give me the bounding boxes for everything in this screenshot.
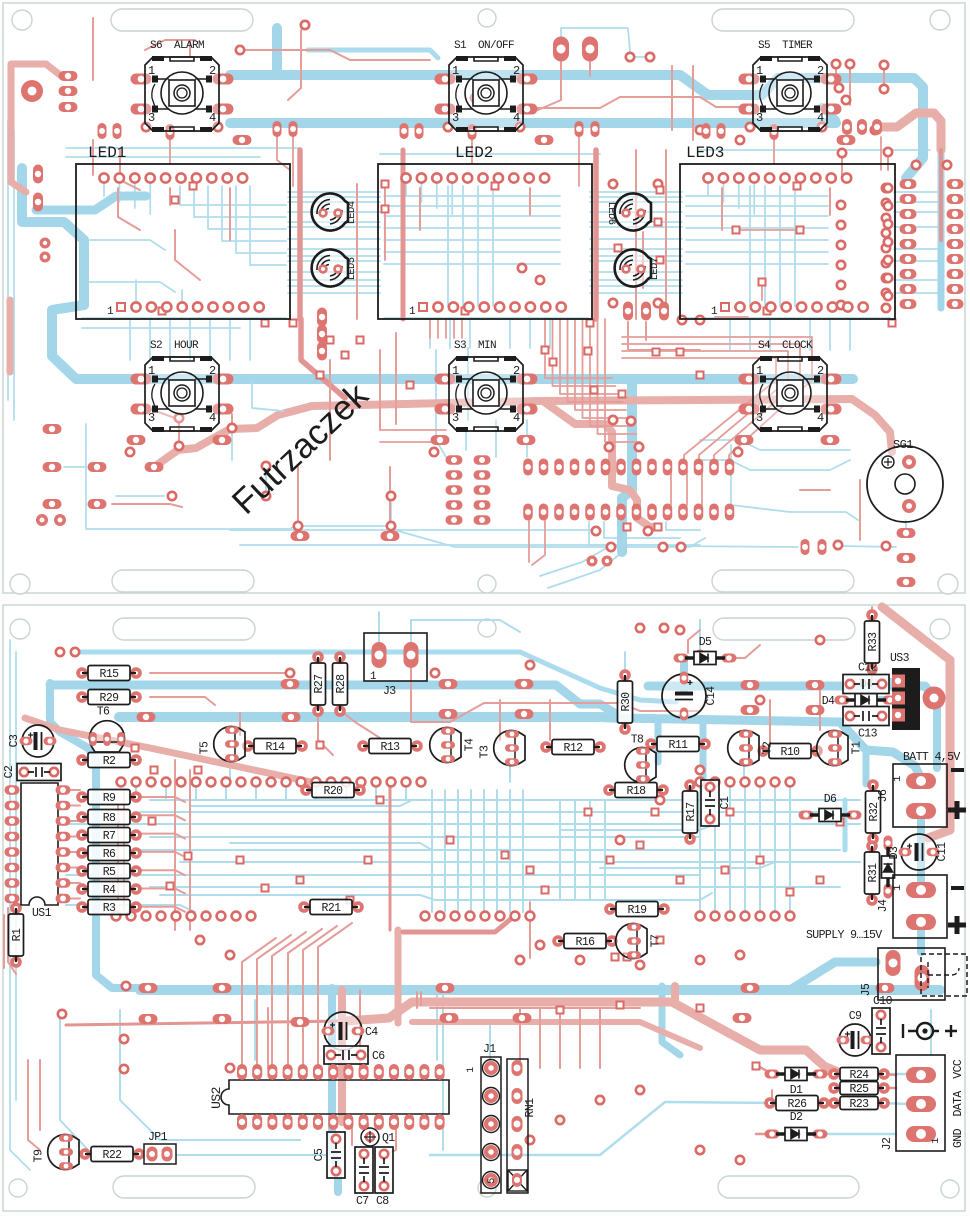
svg-text:R26: R26 <box>788 1098 808 1111</box>
svg-text:C2: C2 <box>3 765 16 778</box>
svg-text:J1: J1 <box>483 1043 496 1056</box>
wire red trace top board <box>10 18 941 565</box>
svg-text:R10: R10 <box>781 746 801 759</box>
svg-text:1: 1 <box>452 364 459 378</box>
wire red trace bottom board <box>4 607 950 1155</box>
svg-text:US3: US3 <box>890 652 910 665</box>
diode D5 <box>674 636 737 665</box>
pads right column <box>832 60 964 309</box>
capacitor C1 <box>701 780 732 826</box>
svg-text:R30: R30 <box>620 692 633 712</box>
resistor R12 <box>540 740 606 756</box>
svg-text:J2: J2 <box>881 1137 894 1150</box>
resistor R26 <box>764 1096 830 1112</box>
svg-text:R25: R25 <box>850 1083 870 1096</box>
capacitor C3 <box>8 725 57 757</box>
svg-text:C13: C13 <box>858 728 878 741</box>
svg-text:1: 1 <box>370 671 377 683</box>
svg-text:C4: C4 <box>365 1026 378 1039</box>
capacitor C5 <box>313 1132 345 1178</box>
bottom board outline <box>3 605 965 1211</box>
switch S5 <box>739 40 842 132</box>
svg-text:SUPPLY 9…15V: SUPPLY 9…15V <box>806 929 882 942</box>
svg-text:2: 2 <box>817 364 824 378</box>
diode D4 <box>822 678 898 708</box>
svg-text:R19: R19 <box>628 904 648 917</box>
svg-text:R15: R15 <box>100 668 120 681</box>
resistor R2 <box>76 753 142 769</box>
display LED3 <box>680 144 895 319</box>
svg-text:4: 4 <box>209 111 216 125</box>
svg-text:R6: R6 <box>103 848 116 861</box>
capacitor C13 <box>843 707 889 741</box>
svg-text:1: 1 <box>107 306 114 318</box>
resistor R4 <box>76 882 142 898</box>
svg-text:1: 1 <box>756 364 763 378</box>
svg-text:R22: R22 <box>103 1149 123 1162</box>
svg-text:1: 1 <box>452 64 459 78</box>
pads below SG1 <box>587 524 916 588</box>
transistor T4 <box>430 727 477 763</box>
pads top board scattered <box>159 21 896 530</box>
connector J4 <box>877 875 947 938</box>
svg-text:3: 3 <box>452 411 459 425</box>
resistor R21 <box>298 900 364 916</box>
led LED6 <box>605 193 651 230</box>
svg-text:1: 1 <box>466 1067 477 1073</box>
svg-text:S6 ALARM: S6 ALARM <box>150 40 204 52</box>
resistor R31 <box>865 840 881 906</box>
svg-text:R21: R21 <box>322 902 342 915</box>
capacitor C8 <box>375 1147 393 1208</box>
svg-text:2: 2 <box>513 364 520 378</box>
capacitor C14 <box>662 672 718 721</box>
svg-text:2: 2 <box>209 64 216 78</box>
svg-text:3: 3 <box>148 411 155 425</box>
svg-text:SG1: SG1 <box>893 438 913 452</box>
resistor R3 <box>76 900 142 916</box>
capacitor C7 <box>355 1147 373 1208</box>
pads bottom board scattered <box>56 624 844 1164</box>
svg-text:R9: R9 <box>103 792 116 805</box>
resistor R22 <box>79 1147 145 1163</box>
pads top board left column <box>21 71 400 541</box>
svg-text:S2 HOUR: S2 HOUR <box>150 340 199 352</box>
svg-text:J6: J6 <box>877 789 890 802</box>
svg-text:1: 1 <box>930 1138 942 1144</box>
svg-text:R14: R14 <box>266 741 286 754</box>
svg-text:R8: R8 <box>103 812 116 825</box>
svg-text:J4: J4 <box>877 899 890 912</box>
transistor T9 <box>33 1134 80 1170</box>
resistor R18 <box>603 783 669 799</box>
resistor R17 <box>683 779 699 845</box>
svg-text:US2: US2 <box>209 1087 224 1109</box>
diode D1 <box>765 1068 828 1098</box>
resistor R20 <box>300 783 366 799</box>
svg-text:C1: C1 <box>719 796 732 809</box>
svg-text:C7: C7 <box>356 1195 369 1208</box>
resistor R29 <box>76 690 142 706</box>
svg-text:LED1: LED1 <box>88 144 126 162</box>
led LED4 <box>312 194 358 231</box>
svg-text:C10: C10 <box>873 995 893 1008</box>
resistor R8 <box>76 810 142 826</box>
svg-text:R5: R5 <box>103 866 116 879</box>
switch S6 <box>131 40 234 132</box>
connector J6 <box>877 764 947 827</box>
battery plus minus J6 <box>948 768 966 819</box>
connector J5 DC jack <box>860 948 967 1000</box>
svg-text:R13: R13 <box>381 741 401 754</box>
power polarity symbol <box>903 1023 957 1039</box>
svg-text:C11: C11 <box>936 842 949 862</box>
svg-text:1: 1 <box>892 885 904 891</box>
diode D6 <box>799 793 862 822</box>
svg-text:R1: R1 <box>11 928 24 941</box>
transistor T2 <box>728 730 775 766</box>
svg-text:R16: R16 <box>576 936 596 949</box>
svg-text:C8: C8 <box>376 1195 389 1208</box>
resistor R16 <box>552 934 618 950</box>
transistor T7 <box>616 923 663 959</box>
svg-text:R7: R7 <box>103 830 116 843</box>
resistor network RN1 <box>507 1059 537 1193</box>
transistor T5 <box>199 726 246 762</box>
svg-text:D6: D6 <box>824 793 837 806</box>
resistor R23 <box>828 1097 890 1112</box>
svg-text:S5 TIMER: S5 TIMER <box>758 40 813 52</box>
svg-text:D4: D4 <box>822 695 835 708</box>
ic US1 <box>5 783 71 920</box>
svg-text:R2: R2 <box>103 755 116 768</box>
svg-text:LED7: LED7 <box>649 257 661 280</box>
svg-text:4: 4 <box>513 111 520 125</box>
capacitor C4 <box>322 1012 379 1050</box>
svg-text:C3: C3 <box>8 734 21 747</box>
resistor R33 <box>865 609 881 675</box>
pads bottom board trunk <box>137 679 946 1027</box>
svg-text:4: 4 <box>817 111 824 125</box>
svg-text:1: 1 <box>756 64 763 78</box>
svg-text:R3: R3 <box>103 902 116 915</box>
top board outline <box>3 3 965 593</box>
led LED7 <box>615 249 661 286</box>
svg-text:R11: R11 <box>669 739 689 752</box>
switch S4 <box>739 340 842 432</box>
svg-text:R31: R31 <box>867 863 880 883</box>
resistor R25 <box>828 1082 890 1097</box>
svg-text:R4: R4 <box>103 884 116 897</box>
svg-text:LED5: LED5 <box>346 257 358 280</box>
svg-text:R23: R23 <box>850 1098 870 1111</box>
switch S1 <box>435 40 538 132</box>
supply plus minus J4 <box>948 886 966 934</box>
wire blue trunk top board <box>22 28 941 552</box>
svg-text:D2: D2 <box>790 1111 803 1124</box>
resistor R32 <box>866 779 882 845</box>
svg-text:4: 4 <box>209 411 216 425</box>
resistor R15 <box>76 666 142 682</box>
buzzer SG1 <box>867 438 943 522</box>
resistor R27 <box>311 651 327 717</box>
svg-text:1: 1 <box>711 306 718 318</box>
svg-text:J3: J3 <box>383 685 396 698</box>
resistor R5 <box>76 864 142 880</box>
svg-text:C5: C5 <box>313 1148 326 1161</box>
transistor T8 <box>625 734 656 783</box>
transistor T6 <box>89 706 125 753</box>
svg-text:Q1: Q1 <box>382 1132 395 1145</box>
svg-text:1: 1 <box>148 364 155 378</box>
svg-text:2: 2 <box>209 364 216 378</box>
svg-text:R32: R32 <box>868 802 881 822</box>
svg-text:JP1: JP1 <box>148 1131 168 1144</box>
resistor R30 <box>618 669 634 735</box>
resistor R13 <box>357 739 423 755</box>
connector J3 <box>364 633 427 698</box>
svg-text:2: 2 <box>513 64 520 78</box>
capacitor C12 <box>843 662 889 694</box>
ic US2 <box>209 1064 449 1130</box>
regulator US3 <box>890 652 920 730</box>
svg-text:T1: T1 <box>851 741 864 754</box>
svg-text:C6: C6 <box>372 1050 385 1063</box>
jumper JP1 <box>144 1131 176 1164</box>
wire blue thin bundle bottom board <box>10 612 931 1170</box>
svg-text:T4: T4 <box>464 738 477 751</box>
svg-text:1: 1 <box>892 776 904 782</box>
resistor R7 <box>76 828 142 844</box>
svg-text:LED2: LED2 <box>455 144 493 162</box>
svg-text:BATT 4,5V: BATT 4,5V <box>903 751 960 764</box>
svg-text:R28: R28 <box>335 674 348 694</box>
svg-text:1: 1 <box>409 306 416 318</box>
svg-text:T3: T3 <box>479 745 492 758</box>
wire blue trunk bottom board <box>50 681 940 1192</box>
resistor R6 <box>76 846 142 862</box>
svg-text:LED4: LED4 <box>346 201 358 224</box>
svg-text:D1: D1 <box>790 1084 803 1097</box>
resistor R9 <box>76 790 142 806</box>
switch S3 <box>435 340 538 432</box>
svg-text:C14: C14 <box>705 686 718 706</box>
svg-text:RN1: RN1 <box>524 1098 537 1118</box>
svg-text:T7: T7 <box>650 935 663 948</box>
svg-text:R17: R17 <box>685 803 698 822</box>
svg-text:3: 3 <box>452 111 459 125</box>
capacitor C2 <box>3 764 61 781</box>
resistor R14 <box>242 739 308 755</box>
svg-text:T2: T2 <box>762 741 775 754</box>
display LED2 <box>378 144 592 319</box>
svg-text:1: 1 <box>148 64 155 78</box>
svg-text:T5: T5 <box>199 741 212 754</box>
crystal Q1 <box>361 1128 395 1146</box>
capacitor C11 <box>899 834 950 870</box>
svg-text:S3 MIN: S3 MIN <box>454 340 496 352</box>
svg-text:D5: D5 <box>699 636 712 649</box>
pads mid-bottom rows <box>446 347 735 552</box>
svg-text:R29: R29 <box>100 692 120 705</box>
svg-text:R18: R18 <box>627 785 647 798</box>
svg-text:S4 CLOCK: S4 CLOCK <box>758 340 813 352</box>
svg-text:4: 4 <box>513 411 520 425</box>
svg-text:3: 3 <box>148 111 155 125</box>
svg-text:T9: T9 <box>33 1149 46 1162</box>
svg-text:LED3: LED3 <box>686 144 724 162</box>
svg-text:T8: T8 <box>631 734 644 747</box>
resistor R10 <box>757 744 823 760</box>
transistor T1 <box>817 730 864 766</box>
transistor T3 <box>479 730 526 766</box>
svg-text:3: 3 <box>756 111 763 125</box>
svg-text:T6: T6 <box>97 706 110 719</box>
svg-text:LED6: LED6 <box>605 202 617 225</box>
resistor R28 <box>333 651 349 717</box>
resistor R24 <box>828 1068 890 1083</box>
svg-text:R27: R27 <box>313 675 326 694</box>
svg-text:R24: R24 <box>850 1069 870 1082</box>
svg-text:C12: C12 <box>858 662 878 675</box>
pads below switches <box>98 121 856 456</box>
svg-text:US1: US1 <box>32 907 52 920</box>
switch S2 <box>131 340 234 432</box>
connector J2 <box>881 1055 945 1151</box>
svg-text:R12: R12 <box>564 742 584 755</box>
capacitor C10 <box>872 995 893 1054</box>
wire blue thin bundle top board <box>8 120 938 588</box>
header J1 <box>466 1043 501 1193</box>
svg-text:R33: R33 <box>867 632 880 652</box>
resistor R11 <box>645 737 711 753</box>
svg-text:4: 4 <box>817 411 824 425</box>
svg-text:3: 3 <box>756 411 763 425</box>
pads bottom board rows <box>112 778 795 921</box>
diode D3 <box>882 836 902 899</box>
capacitor C6 <box>324 1046 385 1064</box>
svg-text:R20: R20 <box>324 785 344 798</box>
svg-text:C9: C9 <box>849 1010 862 1023</box>
svg-text:S1 ON/OFF: S1 ON/OFF <box>454 40 514 52</box>
capacitor C9 <box>837 1010 874 1056</box>
display LED1 <box>76 144 290 319</box>
svg-text:5: 5 <box>487 1178 498 1184</box>
svg-text:2: 2 <box>817 64 824 78</box>
svg-text:J5: J5 <box>860 983 873 996</box>
resistor R19 <box>604 902 670 918</box>
led LED5 <box>312 250 358 287</box>
diode D2 <box>765 1111 828 1141</box>
resistor R1 <box>9 902 25 968</box>
svg-text:GND DATA VCC: GND DATA VCC <box>952 1059 965 1148</box>
